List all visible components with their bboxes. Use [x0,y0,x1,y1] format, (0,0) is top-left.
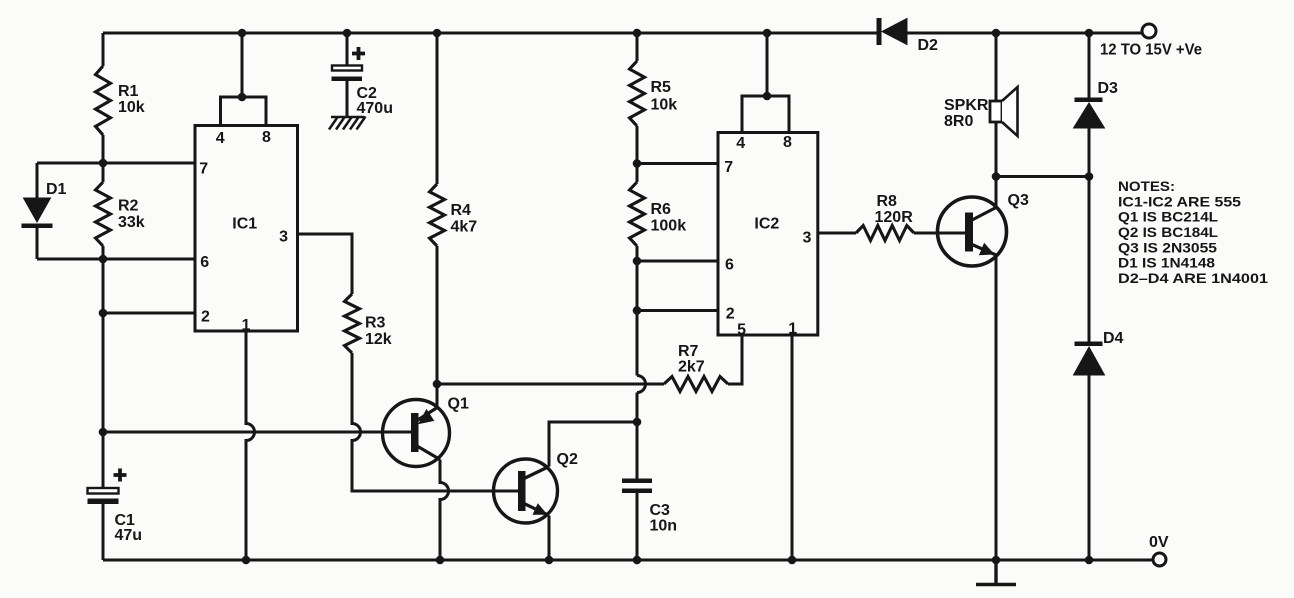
svg-text:8R0: 8R0 [944,113,973,130]
wire IC2 pin 1 to 0V [791,335,794,560]
svg-text:2: 2 [201,309,210,326]
transistor Q2 (BC184L NPN) [494,451,578,523]
resistor R1 [96,66,145,135]
resistor R6 [630,182,687,246]
wire R7 to IC2 pin 5 [728,335,742,384]
svg-text:SPKR: SPKR [944,97,989,114]
resistor R3 [345,294,392,353]
wire IC2 pin 2 [637,309,718,312]
svg-text:D2–D4 ARE 1N4001: D2–D4 ARE 1N4001 [1118,270,1268,286]
svg-text:10k: 10k [118,99,145,116]
capacitor C1 [88,469,143,545]
svg-text:D3: D3 [1098,80,1119,97]
svg-text:R5: R5 [651,79,672,96]
wire R4 from V+ rail [436,33,439,184]
junction IC2 supply on V+ rail [763,29,772,38]
node NOTES legend [1118,178,1268,286]
op-amp/timer IC2 (555) [718,133,818,339]
wire Q3 emitter to 0V [995,255,998,560]
junction pin2-C3 node [633,306,642,315]
svg-text:R4: R4 [451,202,472,219]
svg-text:D1: D1 [46,181,67,198]
wire Q1 emitter to 0V [440,460,449,561]
wire Q1 base from left node [103,431,411,434]
svg-text:R3: R3 [365,315,386,332]
svg-text:7: 7 [199,160,208,177]
ground symbol below 0V rail [976,560,1016,585]
junction R4-Q1-R7 node [433,380,442,389]
svg-text:0V: 0V [1149,534,1169,551]
junction Q2 emitter on 0V rail [545,556,554,565]
svg-text:IC1: IC1 [232,216,257,233]
junction pin6-R6 node [633,257,642,266]
svg-text:D4: D4 [1103,330,1124,347]
svg-text:NOTES:: NOTES: [1118,178,1175,194]
terminal 0V [1153,553,1166,566]
junction pin7-R5-R6 node [633,159,642,168]
svg-text:470u: 470u [357,100,393,117]
svg-text:IC2: IC2 [754,215,779,232]
diode D4 [1074,330,1124,375]
junction IC1 supply on V+ rail [238,29,247,38]
wire IC1 pins 4+8 to V+ rail [221,33,267,126]
wire IC1 pin 1 to 0V [246,331,255,560]
svg-text:5: 5 [737,321,746,338]
resistor R4 [430,184,478,246]
svg-text:4k7: 4k7 [451,219,478,236]
wire IC1 pin 6 [37,258,195,261]
junction IC1 pins 4-8 bracket [238,93,247,102]
resistor R5 [630,61,678,126]
junction C2 on V+ rail [343,29,352,38]
wire Q1 node to R7 [437,383,664,386]
svg-text:33k: 33k [118,214,145,231]
svg-text:D2: D2 [918,37,939,54]
wire R3 to Q2 base [352,353,518,491]
junction D3 branch on V+ rail [1085,29,1094,38]
svg-text:12k: 12k [365,331,392,348]
resistor R7 [664,343,728,392]
svg-text:C3: C3 [650,502,671,519]
svg-text:Q1 IS BC214L: Q1 IS BC214L [1118,209,1218,225]
label 12 TO 15V +Ve [1100,42,1202,59]
svg-text:D1 IS 1N4148: D1 IS 1N4148 [1118,255,1215,271]
wire R8 to Q3 base [914,232,966,235]
wire IC2 pin 3 to R8 [818,232,856,235]
svg-text:R2: R2 [118,198,139,215]
svg-text:12 TO 15V +Ve: 12 TO 15V +Ve [1100,42,1202,59]
resistor R2 [96,182,145,246]
label 0V [1149,534,1169,551]
wire Q2 emitter to 0V [548,516,551,561]
wire speaker node to D3 branch [996,175,1089,178]
svg-text:7: 7 [724,159,733,176]
svg-text:R7: R7 [678,343,699,360]
svg-text:Q3 IS 2N3055: Q3 IS 2N3055 [1118,239,1217,255]
junction IC2 pin1 on 0V rail [788,556,797,565]
transistor Q1 (BC214L PNP) [383,396,469,467]
junction Q3 collector node [992,172,1001,181]
diode D2 [877,18,939,54]
svg-text:IC1-IC2 ARE 555: IC1-IC2 ARE 555 [1118,193,1241,209]
junction Q2 collector at C3 branch [633,418,642,427]
svg-text:2k7: 2k7 [678,359,705,376]
svg-text:120R: 120R [875,209,914,226]
op-amp/timer IC1 (555) [195,126,298,334]
wire R5-R6-C3 vertical branch [637,33,646,560]
svg-text:10n: 10n [650,518,678,535]
svg-text:Q1: Q1 [448,396,469,413]
svg-text:Q2: Q2 [557,451,578,468]
svg-text:2: 2 [726,306,735,323]
svg-text:6: 6 [200,254,209,271]
svg-text:47u: 47u [115,527,143,544]
wire IC2 pin 7 [637,162,718,165]
svg-text:4: 4 [736,135,745,152]
svg-text:Q3: Q3 [1008,192,1029,209]
wire IC1 pin 2 [103,312,195,315]
capacitor C3 [622,479,677,535]
junction Q1 emitter on 0V rail [436,556,445,565]
svg-text:100k: 100k [651,218,687,235]
svg-text:4: 4 [216,130,225,147]
diode D3 [1074,80,1119,128]
svg-text:8: 8 [783,134,792,151]
junction Q3 emitter on 0V rail [992,556,1001,565]
junction D4 on 0V rail [1085,556,1094,565]
junction IC1 pin1 on 0V rail [242,556,251,565]
wire IC1 pin 7 [37,162,195,165]
wire IC2 pin 6 [637,260,718,263]
junction pin2 node [99,309,108,318]
terminal +Ve supply [1142,24,1156,38]
junction pin7-R1-R2 node [99,159,108,168]
resistor R8 [856,193,914,241]
ground chassis below C2 [329,117,366,130]
junction C3 on 0V rail [633,556,642,565]
junction link on D3 branch [1085,172,1094,181]
svg-text:R8: R8 [877,193,898,210]
speaker SPKR 8R0 [944,33,1018,177]
svg-text:3: 3 [803,230,812,247]
wire R4 to Q1 collector [436,246,439,407]
svg-text:3: 3 [279,228,288,245]
junction R4 on V+ rail [433,29,442,38]
svg-text:8: 8 [262,129,271,146]
capacitor C2 [332,33,393,117]
wire Q2 collector to C3 node [549,422,637,467]
svg-text:10k: 10k [651,97,678,114]
junction Q1 base wire on left branch [99,428,108,437]
wire Q3 collector to speaker node [995,177,998,208]
wire D3-D4 vertical branch [1088,33,1091,560]
junction IC2 pins 4-8 bracket [763,92,772,101]
wire V+ top rail [103,32,1142,35]
transistor Q3 (2N3055 NPN) [938,192,1029,266]
svg-text:6: 6 [725,257,734,274]
junction pin6-R2 node [99,255,108,264]
svg-text:R1: R1 [118,83,139,100]
svg-text:R6: R6 [651,201,672,218]
junction R5 on V+ rail [633,29,642,38]
diode D1 [22,163,67,259]
wire IC2 pins 4+8 to V+ rail [742,33,789,133]
wire IC1 pin 3 to R3 [298,234,353,294]
wire left branch vertical [102,33,105,560]
junction speaker on V+ rail [992,29,1001,38]
wire 0V bottom rail [103,559,1153,562]
svg-text:Q2 IS BC184L: Q2 IS BC184L [1118,224,1218,240]
